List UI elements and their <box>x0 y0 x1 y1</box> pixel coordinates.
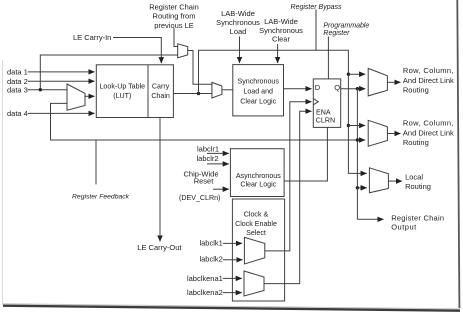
wire data2 to LUT <box>28 80 95 82</box>
svg-text:And Direct Link: And Direct Link <box>403 76 454 85</box>
svg-text:labclr1: labclr1 <box>197 145 219 154</box>
svg-text:labclr2: labclr2 <box>197 154 219 163</box>
svg-text:Clear Logic: Clear Logic <box>240 181 276 189</box>
svg-text:Clock &: Clock & <box>244 211 269 219</box>
wire register feedback label pointer <box>95 140 97 184</box>
wire data1 to LUT <box>28 71 95 73</box>
node Q to local mux <box>356 186 359 189</box>
svg-text:Routing: Routing <box>403 86 429 95</box>
svg-text:CLRN: CLRN <box>316 116 335 124</box>
wire async clear out to register CLRN <box>284 127 327 181</box>
wire sync box to register D <box>284 88 312 90</box>
svg-text:Select: Select <box>246 229 266 237</box>
svg-text:Carry: Carry <box>152 83 170 91</box>
svg-text:Clock Enable: Clock Enable <box>235 220 277 228</box>
node Q junction <box>356 87 359 90</box>
svg-text:labclkena2: labclkena2 <box>187 288 223 297</box>
svg-text:Register Bypass: Register Bypass <box>291 4 342 11</box>
svg-text:Synchronous: Synchronous <box>237 77 279 85</box>
svg-text:LE Carry-In: LE Carry-In <box>73 33 111 42</box>
box U3 asynchronous clear logic <box>230 149 284 197</box>
wire register feedback <box>51 103 358 140</box>
wire Q to local mux M7 <box>357 187 366 189</box>
svg-text:ENA: ENA <box>316 109 331 117</box>
wire mux M4 output <box>387 133 400 135</box>
svg-text:Look-Up Table: Look-Up Table <box>99 83 145 91</box>
wire mux M3 output <box>387 81 400 83</box>
svg-text:data 3: data 3 <box>7 85 28 94</box>
wire register bypass label pointer <box>315 10 317 51</box>
svg-text:Load: Load <box>230 27 247 36</box>
wire labclr1 <box>207 152 229 154</box>
page border bottom shadow <box>3 304 460 309</box>
svg-text:LAB-Wide: LAB-Wide <box>264 17 298 26</box>
wire clock enable line to register ENA <box>264 111 312 283</box>
wire LE carry-in <box>113 38 161 64</box>
wire LE carry-out <box>159 118 161 242</box>
wire bypass to mux M4 <box>348 125 365 127</box>
wire mux M0 output to LUT <box>85 95 95 97</box>
mux M4 output row/column 2 <box>368 120 387 146</box>
wire chip-wide reset DEV_CLRn <box>213 188 229 190</box>
svg-text:(LUT): (LUT) <box>113 92 131 100</box>
svg-text:Clear: Clear <box>272 35 290 44</box>
svg-text:And Direct Link: And Direct Link <box>403 128 454 137</box>
svg-text:D: D <box>315 83 321 92</box>
wire LUT output to mux M2 <box>173 93 212 95</box>
wire clock line to register <box>265 102 312 251</box>
svg-text:LE Carry-Out: LE Carry-Out <box>137 243 182 252</box>
box U2 synchronous load and clear logic <box>233 65 284 116</box>
wire labclk2 <box>223 259 243 261</box>
wire register chain routing input <box>174 28 178 47</box>
mux M1 register chain <box>178 44 188 58</box>
wire Q vertical <box>356 89 358 220</box>
node bypass to M4 <box>347 124 350 127</box>
svg-text:Q: Q <box>334 83 340 92</box>
mux M7 local routing <box>369 168 388 193</box>
svg-text:Load and: Load and <box>243 88 273 96</box>
wire labclkena1 <box>223 277 242 279</box>
svg-text:Register Chain: Register Chain <box>391 214 444 223</box>
svg-text:Routing: Routing <box>405 182 431 191</box>
svg-text:labclk1: labclk1 <box>199 238 222 247</box>
svg-text:data 4: data 4 <box>7 109 28 118</box>
wire bypass to mux M3 <box>348 73 365 75</box>
svg-text:Reset: Reset <box>194 176 215 185</box>
mux M0 input select <box>67 84 85 110</box>
page border right shadow <box>457 0 459 308</box>
svg-text:Register Chain: Register Chain <box>149 3 199 12</box>
wire labclr2 <box>207 163 229 165</box>
wire mux M2 output to sync box <box>222 89 233 91</box>
wire register chain output <box>357 218 383 220</box>
node LUT output junction <box>197 92 200 95</box>
wire data3 branch to mux M1 <box>40 55 177 90</box>
svg-text:labclkena1: labclkena1 <box>187 274 223 283</box>
wire register bypass <box>199 50 367 173</box>
LUT / carry chain box <box>96 65 173 118</box>
carry chain divider <box>147 65 149 118</box>
svg-text:Output: Output <box>391 222 417 231</box>
wire LAB-wide sync load arrow <box>239 37 241 64</box>
wire LAB-wide sync clear arrow <box>277 44 279 63</box>
svg-text:Local: Local <box>405 173 423 182</box>
svg-text:data 1: data 1 <box>7 68 28 77</box>
svg-text:labclk2: labclk2 <box>199 254 222 263</box>
node data3 junction <box>39 88 42 91</box>
svg-text:Chain: Chain <box>151 92 170 100</box>
register clock wedge <box>313 99 318 105</box>
svg-text:Clear Logic: Clear Logic <box>240 97 276 105</box>
box U4 clock and clock enable select <box>232 199 284 301</box>
svg-text:Register Feedback: Register Feedback <box>72 194 130 201</box>
register U1 (programmable register) <box>313 79 340 128</box>
wire data4 to LUT <box>28 112 95 114</box>
svg-text:Register: Register <box>323 30 350 37</box>
svg-text:(DEV_CLRn): (DEV_CLRn) <box>179 194 220 202</box>
svg-text:Row, Column,: Row, Column, <box>403 118 454 127</box>
svg-text:LAB-Wide: LAB-Wide <box>221 9 255 18</box>
wire mux M1 output to mux M2 <box>188 51 212 85</box>
node Q to M4 <box>356 138 359 141</box>
wire Q to mux M4 <box>357 139 365 141</box>
mux M3 output row/column 1 <box>368 68 387 96</box>
mux M2 sync input <box>212 82 222 98</box>
svg-text:Routing: Routing <box>403 138 429 147</box>
svg-text:Row, Column,: Row, Column, <box>403 66 454 75</box>
wire programmable register label pointer <box>327 37 329 79</box>
wire register Q output to mux M3 <box>341 88 366 90</box>
svg-text:Programmable: Programmable <box>323 22 369 29</box>
svg-text:Routing from: Routing from <box>153 12 196 21</box>
svg-text:previous LE: previous LE <box>154 21 194 30</box>
wire mux M7 output <box>388 180 402 182</box>
page border left faint <box>2 60 4 305</box>
svg-text:Synchronous: Synchronous <box>216 18 260 27</box>
mux M6 clock enable select <box>244 271 264 296</box>
wire labclkena2 <box>223 292 242 294</box>
mux M5 clock select <box>244 237 264 264</box>
node bypass to M3 <box>347 73 350 76</box>
wire data3 to mux M0 <box>28 89 67 91</box>
wire labclk1 <box>223 242 242 244</box>
svg-text:Asynchronous: Asynchronous <box>236 172 281 180</box>
